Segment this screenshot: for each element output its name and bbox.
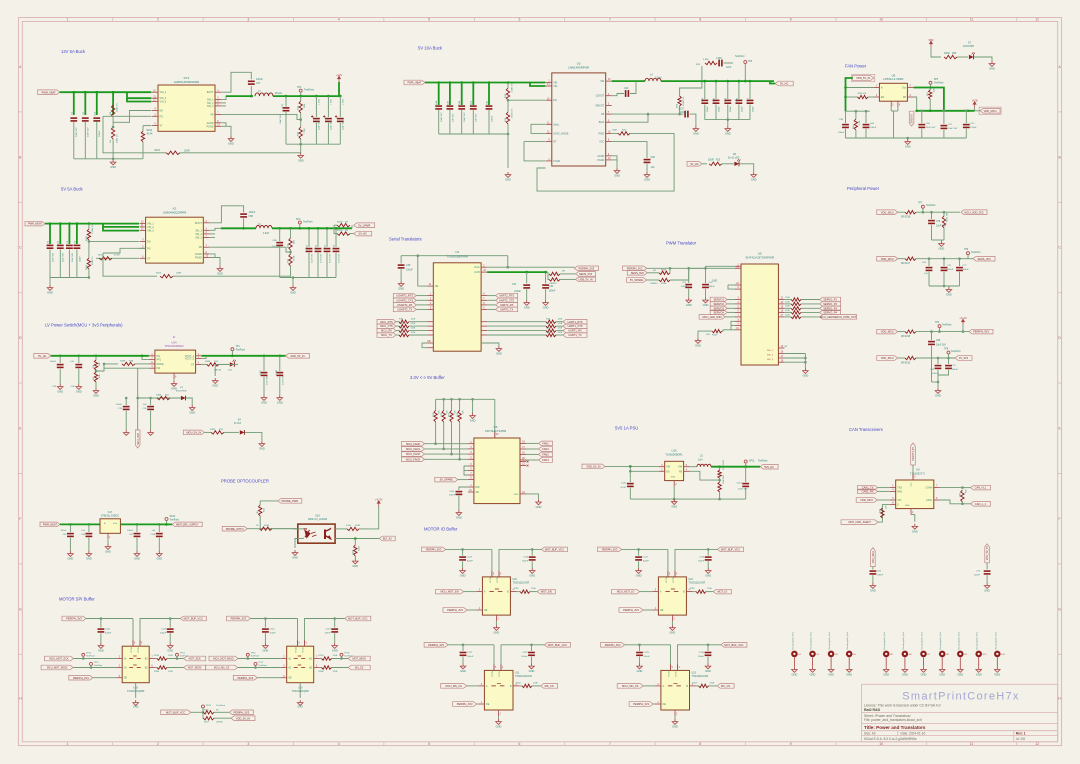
capacitor C3 100nF [93, 118, 100, 121]
capacitor C72 100nF fan out [965, 110, 968, 113]
svg-text:U9: U9 [916, 468, 920, 472]
svg-text:GND: GND [292, 556, 298, 560]
svg-text:GND: GND [105, 550, 111, 554]
svg-text:1uF: 1uF [924, 273, 928, 275]
svg-text:SyNc: SyNc [553, 123, 560, 126]
wire u5 oe2 bank [778, 347, 784, 349]
svg-text:R21B: R21B [319, 655, 325, 657]
svg-text:CAN_L_1: CAN_L_1 [975, 502, 987, 506]
svg-text:120E: 120E [558, 332, 563, 334]
test point TP6 sens [967, 252, 970, 255]
svg-text:0R: 0R [345, 230, 348, 232]
svg-text:GND: GND [792, 673, 798, 677]
hierarchical label 3V_3V3 [955, 356, 972, 361]
svg-text:+3.3V: +3.3V [959, 316, 967, 320]
svg-text:TP1: TP1 [236, 346, 241, 348]
svg-text:10uF 50V: 10uF 50V [280, 114, 282, 124]
resistor R153 10K u5 pulldown [723, 329, 731, 331]
test point in2 U18 [90, 662, 93, 665]
svg-text:10K/NC: 10K/NC [216, 721, 224, 723]
ground C123 [460, 568, 466, 573]
svg-text:100nF: 100nF [698, 561, 705, 563]
wire spi vccb net U19 [305, 619, 345, 647]
svg-text:24.9K 1%: 24.9K 1% [683, 96, 685, 106]
ground C137 [693, 126, 699, 131]
capacitor C66b 1uF heat [88, 523, 91, 526]
hierarchical label MOT_BUF_VCC spi U18 [180, 616, 206, 621]
svg-text:5V_HC: 5V_HC [359, 232, 367, 236]
svg-text:TP13: TP13 [180, 653, 186, 655]
svg-text:GND: GND [725, 132, 731, 136]
svg-text:OE: OE [784, 346, 788, 348]
resistor R219 peripheral [943, 211, 946, 214]
svg-text:5V 10A Buck: 5V 10A Buck [418, 46, 443, 51]
svg-text:PWR_VBAT: PWR_VBAT [42, 90, 56, 94]
ground C127 low [460, 664, 466, 669]
inductor L4 3.3uH [645, 78, 661, 81]
capacitor C123 100nF [462, 549, 464, 555]
svg-text:C126: C126 [699, 557, 705, 559]
resistor R22 120E row right [481, 325, 487, 327]
hierarchical label USART2_RTS [393, 293, 416, 298]
svg-text:GND: GND [505, 178, 511, 182]
hierarchical label PERIPH_3V3 low U21 [424, 643, 448, 648]
svg-text:7: 7 [609, 742, 611, 746]
svg-text:MountingHole_Pad: MountingHole_Pad [994, 632, 997, 649]
wire can vcc drop [912, 465, 914, 480]
svg-text:2: 2 [157, 742, 159, 746]
ground C47 [524, 300, 530, 305]
svg-text:120E: 120E [531, 588, 536, 590]
svg-text:TP7: TP7 [918, 203, 923, 205]
svg-text:GND: GND [912, 529, 918, 533]
svg-text:GND: GND [456, 516, 462, 520]
svg-text:EN: EN [553, 99, 557, 102]
capacitor C67 10uF fan out [943, 110, 946, 113]
ground U23 low [674, 716, 676, 719]
capacitor C52 5v5a out [308, 228, 310, 247]
svg-text:TestPoint: TestPoint [251, 655, 260, 658]
svg-text:C137: C137 [679, 109, 685, 111]
ground C66b [86, 551, 92, 556]
svg-text:SERVO_P4: SERVO_P4 [823, 311, 837, 315]
svg-text:0R R21B: 0R R21B [901, 217, 911, 219]
capacitor C50b 1uF lv [78, 355, 81, 358]
wire SW node 5v5a [209, 228, 221, 230]
capacitor C17 100nF bootstrap [248, 81, 255, 84]
svg-text:TP13: TP13 [344, 653, 350, 655]
svg-text:GND: GND [935, 394, 941, 398]
svg-text:VDD_5V_IN: VDD_5V_IN [290, 354, 304, 358]
svg-text:47uF 16V: 47uF 16V [329, 253, 331, 263]
svg-text:OE: OE [124, 677, 128, 680]
svg-text:MCU_FAN1: MCU_FAN1 [406, 447, 420, 451]
svg-text:TP6: TP6 [964, 249, 969, 251]
svg-text:MCU_3V3: MCU_3V3 [137, 433, 140, 445]
svg-text:PERIPH_3V3: PERIPH_3V3 [627, 266, 643, 270]
hierarchical label MCU_LED_WIFI [699, 315, 725, 320]
vertical label VDD_5V_IN can cap [985, 544, 990, 563]
hierarchical label PROBE_PWR [278, 499, 302, 504]
LED D10 status [219, 363, 229, 365]
svg-text:10: 10 [879, 742, 883, 746]
svg-text:1uF: 1uF [143, 404, 147, 406]
resistor R218 0R periph [898, 331, 905, 333]
resistor RP2 pullup u6 [443, 399, 445, 410]
svg-text:5: 5 [428, 742, 430, 746]
svg-text:R163: R163 [661, 270, 667, 272]
svg-text:GND: GND [905, 145, 911, 149]
svg-text:120E: 120E [785, 310, 790, 312]
svg-text:FB: FB [903, 96, 906, 99]
svg-text:M3_CS: M3_CS [355, 667, 364, 670]
wire input cap drop [112, 92, 114, 115]
svg-text:MCU_MOT_EN: MCU_MOT_EN [441, 590, 459, 594]
svg-text:VCC: VCC [599, 141, 604, 144]
capacitor C119 100nF spi U18 [169, 619, 171, 628]
wire spi vcca drop U19 [297, 619, 299, 647]
svg-text:VCCB: VCCB [676, 671, 678, 677]
wire psu output rail [711, 466, 760, 468]
svg-text:MOT_BUF_VCC: MOT_BUF_VCC [184, 617, 203, 621]
svg-text:C9A: C9A [458, 100, 461, 105]
svg-text:120E: 120E [333, 671, 338, 673]
svg-text:USART2_TX: USART2_TX [397, 308, 412, 312]
hierarchical label MCU_M3_CS spi in2 [206, 665, 238, 670]
wire psu gnd stem [673, 487, 675, 500]
wire SW to inductor L4 [612, 80, 645, 82]
svg-text:GND: GND [98, 649, 104, 653]
resistor R163 0R u5 [647, 272, 659, 274]
capacitor C10A input [438, 83, 440, 106]
svg-text:VT: VT [160, 125, 164, 128]
svg-text:330R: 330R [210, 429, 216, 431]
svg-text:GND: GND [352, 564, 358, 568]
svg-text:C10A: C10A [435, 100, 438, 106]
ground C130 low b [705, 664, 711, 669]
ground E4 [245, 432, 262, 441]
svg-text:100uF: 100uF [730, 105, 732, 112]
hierarchical label CAN1_TX [858, 485, 878, 490]
hierarchical label FAN2 out [520, 453, 526, 455]
svg-text:Peripheral Power: Peripheral Power [847, 186, 880, 191]
svg-text:C6T: C6T [948, 124, 953, 126]
svg-text:Title: Power and Translators: Title: Power and Translators [864, 725, 926, 730]
capacitor C137 100pF [680, 113, 684, 115]
svg-text:100nF: 100nF [698, 656, 705, 658]
diode D3 ESD-PWR [170, 397, 180, 399]
svg-text:MountingHole_Pad: MountingHole_Pad [939, 632, 942, 649]
hierarchical label MCU_FAN0 [402, 441, 425, 446]
hierarchical label VDD_5V_IN fan [853, 76, 874, 81]
hierarchical label PERIPH_3V3 right col [969, 329, 993, 334]
ground C141 [456, 510, 462, 515]
svg-text:5: 5 [428, 18, 430, 22]
wire probe opto input pins [293, 528, 304, 530]
svg-text:2: 2 [157, 18, 159, 22]
wire FB tap [221, 114, 301, 119]
IC U22 TXS0101DCKR [658, 577, 686, 615]
capacitor C51 100nF u5 [688, 268, 690, 283]
power flag VCC fan out [974, 108, 976, 111]
svg-text:PROBE OPTOCOUPLER: PROBE OPTOCOUPLER [221, 479, 269, 484]
hierarchical label VDD_MCU fan out [967, 110, 970, 113]
svg-text:R1B: R1B [129, 360, 134, 362]
wire u5 vccb feed [689, 267, 706, 269]
svg-text:100R: 100R [184, 150, 190, 152]
resistor spi out1 U18 [155, 658, 157, 660]
svg-text:100nF: 100nF [681, 286, 688, 288]
capacitor C45 100nF u3 [400, 256, 402, 264]
svg-text:PERIPH_3V3: PERIPH_3V3 [237, 676, 253, 680]
svg-text:MCU_MC_CS: MCU_MC_CS [622, 684, 639, 688]
svg-text:VDD_5V_IN: VDD_5V_IN [986, 546, 989, 560]
capacitor C68 10uF periph [931, 332, 933, 340]
svg-text:+ C63: + C63 [342, 98, 344, 105]
power input label PWR_VBAT 5V10A [404, 80, 425, 85]
resistor R1E 120E row right [481, 321, 487, 323]
ground C50b [76, 384, 82, 389]
wire feedback net U2 [612, 113, 680, 115]
resistor R45 10K fan enable [846, 96, 858, 98]
capacitor C126 100nF b [707, 549, 709, 555]
svg-text:MountingHole_Pad: MountingHole_Pad [883, 632, 886, 649]
ground 5v5a output [290, 285, 296, 290]
ground C49 [543, 300, 549, 305]
inductor R222 en top [88, 222, 91, 225]
svg-text:LM61495RPHR: LM61495RPHR [568, 66, 590, 70]
capacitor C49 100nF u3 right2 [545, 272, 547, 283]
svg-text:UART1_RTS: UART1_RTS [567, 320, 582, 324]
svg-text:PERIPH_3V3: PERIPH_3V3 [457, 702, 473, 706]
svg-text:GND: GND [298, 158, 304, 162]
wire lv out rail [202, 355, 286, 357]
wire lv low gnds [125, 420, 127, 430]
capacitor C65 100nF can [872, 567, 874, 570]
svg-text:100nF: 100nF [643, 561, 650, 563]
svg-text:1uF: 1uF [70, 361, 74, 363]
svg-text:120E: 120E [785, 297, 790, 299]
svg-text:GND: GND [57, 390, 63, 394]
resistor R11 330R esd [155, 397, 157, 399]
resistor R7 lv pull bottom [95, 370, 97, 372]
svg-text:GND: GND [259, 447, 265, 451]
ground IC PC1 [228, 136, 234, 141]
svg-text:FAN-PWR: FAN-PWR [963, 45, 974, 48]
svg-text:PWM Translator: PWM Translator [666, 241, 697, 246]
svg-text:GND: GND [460, 574, 466, 578]
hierarchical label CAN_L_1 [971, 502, 991, 507]
inductor L5 1uH psu [690, 466, 697, 468]
ground R153 [695, 338, 701, 343]
power +3.3V opto [377, 501, 380, 507]
svg-text:100nF: 100nF [974, 575, 981, 577]
svg-text:BOOT: BOOT [207, 91, 214, 94]
wire heat ldo rail [60, 523, 100, 525]
hierarchical label 5V_HC out 5v5a [354, 231, 372, 236]
svg-text:MOT_IO: MOT_IO [717, 590, 727, 594]
hierarchical label UART2_TX right [481, 308, 487, 310]
svg-text:GND: GND [298, 706, 304, 709]
hierarchical label SENS_3V3 [973, 256, 995, 261]
title block frame [862, 684, 1058, 742]
power flag VBB fan [930, 41, 933, 47]
svg-text:R225: R225 [86, 264, 88, 270]
svg-text:G: G [19, 607, 22, 611]
svg-text:120E: 120E [411, 319, 416, 321]
wire 5v5a output rail [272, 227, 352, 229]
capacitor C78 10uF peripheral [931, 212, 933, 219]
ground LED D6 [740, 164, 754, 172]
wire fan IN feed [846, 87, 874, 89]
wire fan input cap rail [846, 110, 870, 112]
svg-text:100nF: 100nF [406, 268, 413, 271]
capacitor C118 47uF lv out2 [279, 355, 282, 358]
svg-text:11: 11 [970, 742, 974, 746]
ground C125 [636, 568, 642, 573]
resistor R1B 120E row [377, 319, 396, 324]
svg-text:GND: GND [398, 287, 404, 291]
svg-text:LM60440QDRRR: LM60440QDRRR [163, 211, 187, 215]
svg-text:GND: GND [670, 631, 676, 635]
hierarchical label PROBE_OPTO [222, 526, 247, 531]
svg-text:10K: 10K [99, 362, 101, 366]
svg-text:SENS_5V0: SENS_5V0 [631, 271, 645, 275]
ground opto in [292, 550, 298, 555]
resistor R50 fb top psu [718, 465, 721, 468]
svg-text:GND: GND [536, 505, 542, 509]
optocoupler LED element [304, 529, 317, 538]
hierarchical label SERVO3 [710, 306, 727, 311]
svg-text:120E: 120E [168, 671, 173, 673]
ground C36 [148, 430, 154, 435]
wire iobuf vcca rail U20 [446, 548, 492, 550]
svg-text:4: 4 [338, 742, 340, 746]
svg-text:MOT_MISO: MOT_MISO [353, 658, 366, 661]
capacitor C2 10uF 50V [82, 118, 89, 121]
svg-text:GND: GND [217, 272, 223, 276]
svg-text:330R: 330R [944, 53, 950, 55]
svg-text:100nF: 100nF [952, 369, 959, 371]
resistor 120E servo row 5 [778, 316, 784, 318]
svg-text:Vbuck: Vbuck [275, 91, 283, 95]
svg-text:+12V: +12V [336, 73, 343, 77]
resistor R15C DNP u3 [548, 272, 549, 279]
inductor L3 4.8uH [256, 226, 272, 229]
svg-text:100uF: 100uF [741, 105, 743, 112]
svg-text:VDD_MCU: VDD_MCU [881, 330, 894, 334]
svg-text:PISO: PISO [598, 132, 604, 135]
optocoupler transistor element [325, 528, 331, 540]
svg-text:Id: 2/8: Id: 2/8 [1016, 737, 1025, 741]
svg-text:GND: GND [470, 419, 476, 423]
svg-text:LP5912-3.3DRV: LP5912-3.3DRV [883, 77, 903, 81]
svg-text:MCU_FAN0: MCU_FAN0 [406, 442, 420, 446]
svg-text:1: 1 [67, 742, 69, 746]
svg-text:GND: GND [86, 557, 92, 561]
hierarchical label USB_5V_IN u3 [576, 277, 596, 282]
ground R7 [93, 388, 99, 393]
svg-text:GND: GND [290, 291, 296, 295]
wire EN net [113, 111, 151, 123]
svg-text:GND: GND [263, 649, 269, 653]
wire EN tap 5v5a [89, 240, 139, 242]
svg-text:0R R217: 0R R217 [901, 263, 911, 265]
ground C118 [277, 395, 283, 400]
IC U19 TXS0102DQE [287, 646, 314, 683]
svg-text:PGND: PGND [553, 160, 560, 163]
svg-text:GND: GND [156, 557, 162, 561]
wire input cap drop [84, 92, 86, 115]
hierarchical label MOT_BUF_VCC low U21 [544, 643, 570, 648]
svg-text:GND: GND [705, 574, 711, 578]
svg-text:4.8uH: 4.8uH [263, 233, 269, 235]
hierarchical label 5V_SPARE u5 [627, 278, 647, 283]
svg-text:MountingHole_Pad: MountingHole_Pad [810, 632, 813, 649]
svg-text:U22: U22 [688, 578, 693, 581]
svg-text:TestPoint: TestPoint [94, 664, 103, 667]
svg-text:100nF: 100nF [514, 290, 521, 293]
capacitor C138 12nF feedforward [719, 60, 722, 67]
svg-text:11: 11 [970, 18, 974, 22]
svg-text:PERIPH_3V3: PERIPH_3V3 [231, 617, 247, 621]
svg-text:1uH: 1uH [698, 458, 703, 461]
capacitor C12 output [749, 81, 751, 99]
capacitor C48 1uF out [278, 227, 281, 230]
svg-text:R156: R156 [661, 283, 667, 285]
svg-text:MCU_MS_CS: MCU_MS_CS [446, 684, 463, 688]
wire BIAS loop [612, 114, 648, 122]
svg-text:ST: ST [191, 363, 195, 366]
svg-text:SW_1: SW_1 [195, 229, 202, 232]
svg-text:FB: FB [679, 470, 682, 473]
hierarchical label PERIPH_3V3 u3 [574, 266, 598, 271]
svg-text:100R: 100R [176, 273, 182, 275]
svg-text:VDD_5V_IN: VDD_5V_IN [586, 465, 600, 469]
svg-text:GND: GND [984, 589, 990, 593]
svg-text:R1E: R1E [546, 319, 551, 321]
resistor R210 40.4K on VT pin [143, 125, 152, 127]
svg-text:IN1: IN1 [156, 355, 160, 358]
hierarchical label M3_CS spi out2 [348, 665, 370, 670]
regulator K2 LM60440QDRRR [146, 217, 204, 263]
svg-text:R222: R222 [86, 235, 88, 241]
svg-text:1: 1 [67, 18, 69, 22]
resistor R51 fb bottom psu [719, 478, 721, 482]
hierarchical label 5V_HC lv [34, 354, 51, 359]
svg-text:120E: 120E [533, 682, 538, 684]
svg-text:C7B: C7B [713, 97, 715, 102]
svg-text:10uF 50V: 10uF 50V [52, 252, 54, 262]
ground fan block [906, 137, 909, 140]
svg-text:OE: OE [484, 609, 488, 612]
svg-text:GND: GND [705, 669, 711, 673]
capacitor C65b 100nF heat [69, 523, 72, 526]
svg-text:200K 1%: 200K 1% [92, 256, 94, 265]
wire iobuf vcca drop U22 [667, 549, 669, 577]
resistor R27 120E row right [481, 330, 487, 332]
wire U8 gnd stems [890, 107, 892, 111]
svg-text:PWR_HEAT: PWR_HEAT [28, 222, 43, 226]
resistor R217 0R sens [898, 258, 905, 260]
svg-text:47uF 16V: 47uF 16V [320, 253, 322, 263]
resistor R30 100K EN divider [506, 88, 509, 100]
svg-text:MCU_LED_WIFI: MCU_LED_WIFI [702, 315, 722, 319]
hierarchical label MCU_MOT_MOSI spi in2 [41, 665, 73, 670]
test point TP5 fan [929, 81, 932, 84]
svg-text:UART2_CTS: UART2_CTS [499, 298, 514, 302]
resistor R15 feedback bottom [299, 127, 302, 139]
